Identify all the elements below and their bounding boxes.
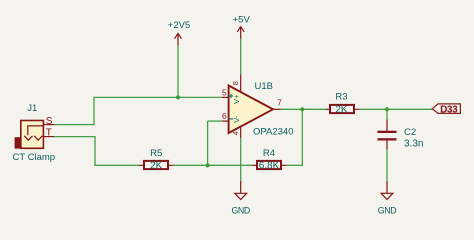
wire T vertical down <box>94 136 96 165</box>
svg-text:T: T <box>46 128 52 139</box>
wire S horizontal from J1 <box>54 124 94 126</box>
power symbol +2V5 <box>175 34 182 46</box>
svg-text:2K: 2K <box>335 104 348 115</box>
pin 6 stub <box>222 120 229 122</box>
svg-text:R3: R3 <box>335 92 347 103</box>
svg-text:GND: GND <box>231 205 250 215</box>
svg-text:6.8K: 6.8K <box>259 160 280 171</box>
svg-text:GND: GND <box>378 205 397 215</box>
svg-text:OPA2340: OPA2340 <box>253 126 294 137</box>
svg-text:+5V: +5V <box>233 14 251 25</box>
wire output to R3 <box>281 108 326 110</box>
wire R5 right to junction <box>173 164 207 166</box>
resistor R3 <box>330 105 354 113</box>
op-amp U1 triangle <box>229 86 273 134</box>
capacitor C2 <box>378 120 397 150</box>
svg-text:4: 4 <box>231 131 240 135</box>
svg-text:R5: R5 <box>150 148 162 159</box>
svg-text:2K: 2K <box>150 160 163 171</box>
svg-text:S: S <box>46 116 53 127</box>
svg-text:5: 5 <box>222 87 227 97</box>
connector J1 <box>15 121 44 149</box>
wire to R5 left <box>94 164 138 166</box>
svg-text:C2: C2 <box>404 127 416 138</box>
pin S stub of J1 <box>44 124 54 126</box>
wire junction up to pin 6 <box>207 121 209 165</box>
svg-text:6: 6 <box>222 111 227 121</box>
svg-text:R4: R4 <box>263 148 275 159</box>
wire +5V to op-amp V+ <box>240 39 242 75</box>
svg-text:CT Clamp: CT Clamp <box>13 152 56 163</box>
wire +2V5 drop <box>177 45 179 97</box>
op-amp minus marker <box>229 118 233 120</box>
svg-text:3.3n: 3.3n <box>404 139 423 150</box>
junction node R5/feedback <box>206 163 210 167</box>
wire S vertical up <box>93 97 95 125</box>
wire op-amp V- to GND <box>240 138 242 181</box>
wire T horizontal from J1 <box>54 136 95 138</box>
pin 8 stub <box>240 74 242 92</box>
op-amp plus marker <box>229 94 233 98</box>
ground symbol under C2 <box>381 181 393 200</box>
wire to op-amp pin 6 <box>208 120 222 122</box>
svg-text:7: 7 <box>277 97 282 107</box>
pin T stub of J1 <box>44 136 54 138</box>
wire to C2 top <box>386 109 388 119</box>
svg-text:V-: V- <box>232 115 241 123</box>
wire junction to R4 left <box>208 164 252 166</box>
wire C2 bottom to GND <box>386 149 388 181</box>
wire feedback up <box>301 109 303 166</box>
wire R4 right <box>287 164 303 166</box>
svg-text:8: 8 <box>231 81 240 85</box>
hierarchical label D33 <box>432 104 460 116</box>
wire R3 to D33 <box>359 108 432 110</box>
junction node output/C2 <box>385 107 389 111</box>
resistor R5 <box>144 161 168 169</box>
ground symbol under op-amp <box>235 181 247 200</box>
svg-text:J1: J1 <box>27 103 37 114</box>
junction node output/feedback <box>300 107 304 111</box>
pin 4 stub <box>240 127 242 139</box>
pin stubs R4 <box>251 164 286 166</box>
pin stubs R3 <box>326 108 360 110</box>
svg-text:U1B: U1B <box>255 81 273 92</box>
svg-text:D33: D33 <box>440 104 458 115</box>
power symbol +5V <box>237 27 244 39</box>
pin 7 stub <box>273 108 281 110</box>
svg-text:+2V5: +2V5 <box>168 20 190 31</box>
svg-text:V+: V+ <box>232 94 241 104</box>
wire to op-amp pin 5 <box>93 96 222 98</box>
pin 5 stub <box>222 96 229 98</box>
resistor R4 <box>257 161 281 169</box>
pin stubs R5 <box>139 164 174 166</box>
junction node +2V5/pin5 <box>176 95 180 99</box>
